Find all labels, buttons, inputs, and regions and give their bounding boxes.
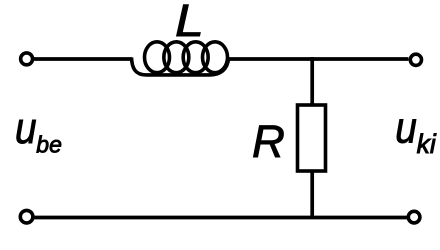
resistor R body (298, 105, 326, 171)
inductor L loop 1 (145, 42, 170, 73)
wire top-left segment (34, 57, 132, 61)
wire junction to resistor top (310, 57, 314, 106)
terminal top-right (410, 54, 421, 65)
svg-text:u: u (395, 103, 417, 152)
svg-text:R: R (252, 116, 285, 167)
svg-text:u: u (15, 104, 37, 153)
terminal bottom-left (20, 210, 33, 223)
terminal top-left (21, 53, 33, 65)
svg-text:L: L (175, 0, 204, 46)
wire top-right segment (229, 57, 408, 61)
svg-text:ki: ki (417, 129, 437, 159)
terminal bottom-right (408, 211, 420, 223)
wire bottom rail (34, 216, 407, 220)
wire resistor bottom to bottom rail (310, 170, 314, 219)
svg-text:be: be (36, 132, 62, 158)
inductor L loop 3 (183, 42, 208, 73)
inductor L coil bottom arc (132, 58, 229, 75)
inductor L loop 2 (164, 42, 189, 73)
inductor L loop 4 (203, 42, 228, 73)
